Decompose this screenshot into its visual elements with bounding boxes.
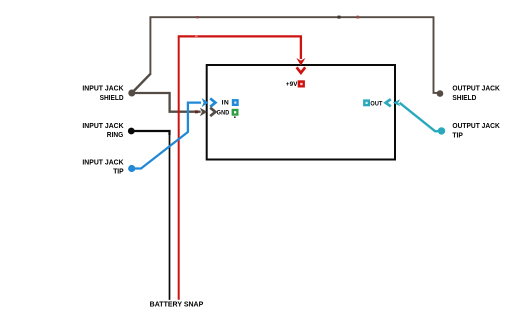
svg-text:TIP: TIP [113, 169, 124, 176]
svg-text:BATTERY SNAP: BATTERY SNAP [150, 302, 204, 309]
pad IN (blue) [232, 99, 239, 106]
svg-text:INPUT JACK: INPUT JACK [82, 85, 123, 92]
arrow: IN solid head (blue) [202, 98, 209, 107]
svg-text:RING: RING [107, 132, 124, 139]
svg-text:TIP: TIP [452, 132, 463, 139]
junction mark on rail (reddish) [356, 16, 359, 19]
pad GND (green) [232, 109, 239, 116]
terminal dot: input jack ring (black) [128, 128, 135, 135]
svg-text:OUTPUT JACK: OUTPUT JACK [452, 86, 499, 93]
junction mark on rail left (reddish) [196, 16, 198, 18]
svg-text:OUT: OUT [370, 100, 382, 107]
wire: input tip to IN pad (blue) [132, 103, 201, 169]
arrow: IN chevron (blue) [210, 98, 215, 106]
svg-text:SHIELD: SHIELD [100, 95, 124, 102]
arrow: OUT solid head (teal) [393, 99, 400, 106]
pad +9V (red) [298, 80, 305, 87]
terminal dot: input jack tip (blue) [128, 165, 135, 172]
terminal dot: output jack shield (gray) [437, 90, 444, 97]
wire: battery black lead vertical [169, 134, 171, 300]
wire: output tip to OUT pad (teal) [400, 103, 442, 132]
arrow: GND solid head (gray) [200, 108, 207, 117]
arrow: +9V solid head (red) [296, 58, 305, 66]
svg-text:GND: GND [217, 109, 230, 116]
junction mark on rail (dark) [338, 16, 341, 19]
arrow: OUT chevron (teal) [386, 99, 391, 106]
wire: input jack ring horizontal (black) [131, 131, 169, 135]
wire: shield bus rail (gray, input shield to output shield) [150, 17, 440, 93]
wire: battery red lead vertical (red) [178, 37, 180, 300]
speck below GND pad [234, 116, 236, 118]
arrow: GND chevron (gray) [210, 108, 215, 116]
wire: red lead horizontal and drop to +9V [178, 36, 301, 59]
svg-text:INPUT JACK: INPUT JACK [82, 160, 123, 167]
svg-text:SHIELD: SHIELD [452, 95, 476, 102]
pad OUT (teal) [363, 99, 370, 106]
svg-text:+9V: +9V [286, 81, 298, 88]
terminal dot: input jack shield (gray) [128, 90, 135, 97]
svg-text:OUTPUT JACK: OUTPUT JACK [452, 123, 499, 130]
junction blob on gray wire (dark red) [195, 110, 198, 113]
svg-text:INPUT JACK: INPUT JACK [82, 123, 123, 130]
wire: input shield diagonal (gray) [132, 73, 151, 93]
PCB board outline [207, 65, 395, 160]
junction mark on red wire (light red) [195, 35, 198, 38]
svg-text:IN: IN [222, 100, 230, 107]
terminal dot: output jack tip (teal) [438, 127, 445, 134]
wire: input shield to GND pad (gray) [132, 93, 201, 112]
arrow: +9V chevron (red) [297, 67, 306, 73]
